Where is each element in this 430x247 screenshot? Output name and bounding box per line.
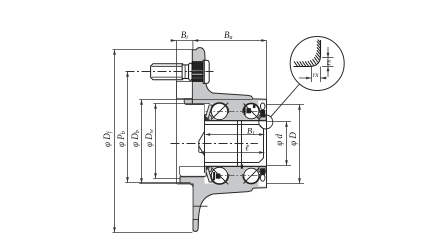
right seal pocket top	[258, 101, 266, 121]
B1 dim line	[206, 134, 265, 136]
svg-text:rx: rx	[324, 59, 332, 66]
Ba right arrow	[261, 39, 266, 42]
left seal pocket bottom	[205, 167, 214, 184]
white box bottom (flange lower arm)	[177, 184, 193, 231]
seal left bottom	[205, 167, 212, 182]
phi Pb bottom extension	[125, 182, 190, 184]
phi Df bottom extension	[113, 232, 193, 234]
B1 left arrow	[205, 133, 210, 136]
dimension arrows	[113, 39, 301, 232]
Db top arrow	[140, 100, 143, 105]
ball row pitch centerlines	[206, 111, 264, 175]
pilot tip inner line and gray tip	[193, 220, 198, 232]
bore left cone chamfers	[199, 131, 205, 141]
d top arrow	[285, 122, 288, 127]
Ba left extension	[192, 41, 194, 50]
l right arrow	[259, 151, 264, 154]
phi D dim line	[299, 105, 301, 184]
phi Dw top extension	[153, 103, 210, 105]
phi Dw bottom extension	[153, 178, 179, 180]
seal land shoulders (gray corners)	[205, 114, 267, 172]
phi Db bottom extension	[139, 183, 190, 185]
bore top line	[205, 124, 260, 126]
svg-text:rx: rx	[313, 71, 320, 79]
bore outline (hub center hole)	[199, 100, 267, 187]
bearing right face	[266, 100, 268, 187]
flange top arm	[192, 48, 266, 121]
pilot tick line	[194, 205, 208, 207]
stud collar	[189, 63, 192, 80]
svg-text:ℓ: ℓ	[245, 143, 249, 153]
B1 right arrow	[259, 133, 264, 136]
Bi extension line (long)	[176, 41, 178, 185]
inner ring bottom surface line	[205, 166, 267, 168]
ball top-left	[211, 103, 227, 119]
bore center face	[198, 141, 200, 152]
ball1 top pocket	[210, 102, 228, 120]
inner ring top surface line	[205, 120, 267, 122]
thread root lines	[152, 65, 183, 67]
phi Db top extension	[139, 99, 253, 101]
cage dark marks near top-right ball	[209, 105, 255, 182]
Ba right extension	[266, 41, 268, 100]
inner ring left face	[204, 115, 206, 173]
phi Dw dim line	[155, 104, 157, 179]
gray tab below top box	[184, 99, 192, 105]
ball2 bottom pocket	[243, 167, 260, 184]
l dim line	[199, 152, 264, 154]
bore right chamfers	[259, 125, 264, 130]
ball contact angle lines	[212, 103, 259, 185]
raceway arcs over balls	[210, 103, 260, 185]
Dw bottom arrow	[154, 173, 157, 178]
ball bottom-left	[211, 167, 227, 183]
hub bottom body and pilot tip	[180, 166, 267, 231]
phi d dim line	[286, 122, 288, 166]
D bottom arrow	[298, 178, 301, 183]
ball2 top pocket	[243, 103, 260, 120]
detail: hatching	[294, 40, 320, 67]
bore bottom line	[205, 162, 260, 164]
Pb top arrow	[126, 72, 129, 77]
phi d bottom extension	[267, 165, 292, 167]
detail: rx dims	[299, 47, 334, 82]
stud centerline	[126, 71, 214, 73]
stud neck	[182, 65, 189, 79]
Dw top arrow	[154, 104, 157, 109]
d bottom arrow	[285, 160, 288, 165]
seal right top	[260, 103, 265, 118]
right seal pocket bottom	[258, 167, 266, 187]
seal right bottom	[260, 168, 265, 181]
inner ring right bore face	[263, 129, 265, 158]
main centerline	[171, 143, 259, 145]
white slab bottom-left	[180, 167, 206, 177]
ball1 bottom pocket	[210, 166, 228, 184]
Db bottom arrow	[140, 178, 143, 183]
inner ring split	[237, 121, 239, 167]
stud knurl (serration)	[192, 62, 202, 82]
top dim line Bi+Ba	[171, 40, 267, 42]
detail circle	[290, 37, 344, 91]
Df top arrow	[113, 50, 116, 55]
phi Db dim line	[141, 100, 143, 184]
stud head	[203, 60, 209, 83]
Pb bottom arrow	[126, 177, 129, 182]
phi Pb dim line	[127, 72, 129, 183]
phi Df top extension	[113, 49, 193, 51]
left seal pocket top	[205, 104, 214, 121]
phi D bottom extension	[267, 183, 305, 185]
white box top (between Bi line and flange face)	[177, 82, 193, 99]
Ba left arrow	[193, 39, 198, 42]
outer ring pockets / white cutouts (top)	[205, 101, 267, 187]
phi d top extension	[267, 121, 292, 123]
ball top-right	[244, 104, 259, 119]
ball bottom-right	[244, 168, 259, 183]
wheel stud: threaded shank	[151, 64, 183, 80]
hub flange and body (gray)	[180, 48, 267, 232]
balls	[211, 103, 259, 183]
D top arrow	[298, 105, 301, 110]
detail circle leader	[259, 115, 273, 129]
Df bottom arrow	[113, 227, 116, 232]
phi Df dim line	[114, 50, 116, 233]
detail: corner profile	[294, 40, 321, 67]
Bi outside arrow	[171, 39, 176, 42]
phi D top extension	[267, 104, 305, 106]
seal left top	[205, 105, 212, 120]
svg-text:φ D: φ D	[288, 132, 298, 146]
l left arrow	[199, 151, 204, 154]
svg-text:φ d: φ d	[274, 134, 284, 146]
